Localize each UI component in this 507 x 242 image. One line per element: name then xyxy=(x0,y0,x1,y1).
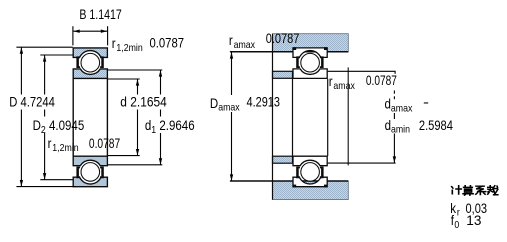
svg-text:-: - xyxy=(423,95,429,110)
label D2 4.0945 xyxy=(33,118,85,136)
bearing top section xyxy=(293,47,328,78)
housing bore line bottom xyxy=(230,180,348,182)
shaft shoulder top xyxy=(273,71,293,78)
svg-text:r1,2min: r1,2min xyxy=(112,36,143,54)
计 xyxy=(452,186,462,194)
dimension D2 extension lines xyxy=(40,54,72,56)
wire bore line right xyxy=(106,78,108,156)
label r12min bottom xyxy=(48,136,79,154)
svg-text:D2 4.0945: D2 4.0945 xyxy=(33,118,85,136)
housing bottom block xyxy=(273,181,349,200)
svg-text:0.0787: 0.0787 xyxy=(266,31,300,46)
svg-text:d1 2.9646: d1 2.9646 xyxy=(145,118,195,136)
label ramax top xyxy=(229,33,255,51)
svg-text:4.2913: 4.2913 xyxy=(247,94,281,109)
dimension d1 line xyxy=(160,70,162,94)
svg-text:Damax: Damax xyxy=(210,96,240,114)
label CJK 计算系数 (hand drawn strokes) xyxy=(452,186,498,196)
label f0 13 xyxy=(451,213,460,231)
bearing top section xyxy=(73,48,107,79)
svg-text:B 1.1417: B 1.1417 xyxy=(79,7,121,22)
svg-text:13: 13 xyxy=(466,213,481,228)
svg-text:damax: damax xyxy=(385,97,413,115)
dimension da extension bottom xyxy=(328,162,396,164)
wire shaft line left xyxy=(292,79,294,156)
dimension D line xyxy=(20,47,22,94)
dimension da dashed line xyxy=(393,91,395,94)
wire figure left edge xyxy=(272,34,274,200)
数 xyxy=(488,186,498,195)
bearing bottom section xyxy=(73,156,107,187)
label Damax 4.2913 xyxy=(210,96,240,114)
wire bore line left xyxy=(72,78,74,156)
svg-text:ramax: ramax xyxy=(329,74,355,92)
svg-text:d 2.1654: d 2.1654 xyxy=(120,95,167,110)
dimension B line xyxy=(73,30,108,32)
svg-text:D 4.7244: D 4.7244 xyxy=(9,95,55,110)
housing bore line top xyxy=(230,51,348,53)
svg-text:0.0787: 0.0787 xyxy=(89,136,120,151)
label ramax right xyxy=(329,74,355,92)
label damin 2.5984 xyxy=(385,118,410,136)
dimension da extension top xyxy=(328,70,396,72)
label damax - xyxy=(385,97,413,115)
svg-text:0.0787: 0.0787 xyxy=(366,73,397,88)
dimension d line xyxy=(137,79,139,94)
bearing bottom section xyxy=(293,156,328,187)
系 xyxy=(476,186,486,194)
dimension Damax line xyxy=(231,52,233,95)
svg-text:ramax: ramax xyxy=(229,33,255,51)
label d1 2.9646 xyxy=(145,118,195,136)
dimension D extension lines xyxy=(16,46,72,48)
svg-text:0.0787: 0.0787 xyxy=(150,36,185,51)
svg-text:r1,2min: r1,2min xyxy=(48,136,79,154)
label kr 0,03 xyxy=(450,201,460,219)
dimension d1 extension lines xyxy=(108,69,162,71)
dimension d extension lines xyxy=(108,78,140,80)
算 xyxy=(463,186,473,196)
dimension B extension lines xyxy=(72,26,74,45)
wire housing right edge xyxy=(347,67,349,165)
housing top block xyxy=(273,34,349,52)
shaft shoulder bottom xyxy=(273,156,293,163)
label r12min top xyxy=(112,36,143,54)
svg-text:damin: damin xyxy=(385,118,410,136)
wire shaft line right xyxy=(327,79,329,156)
dimension D2 line xyxy=(44,55,46,94)
svg-text:2.5984: 2.5984 xyxy=(419,118,453,133)
